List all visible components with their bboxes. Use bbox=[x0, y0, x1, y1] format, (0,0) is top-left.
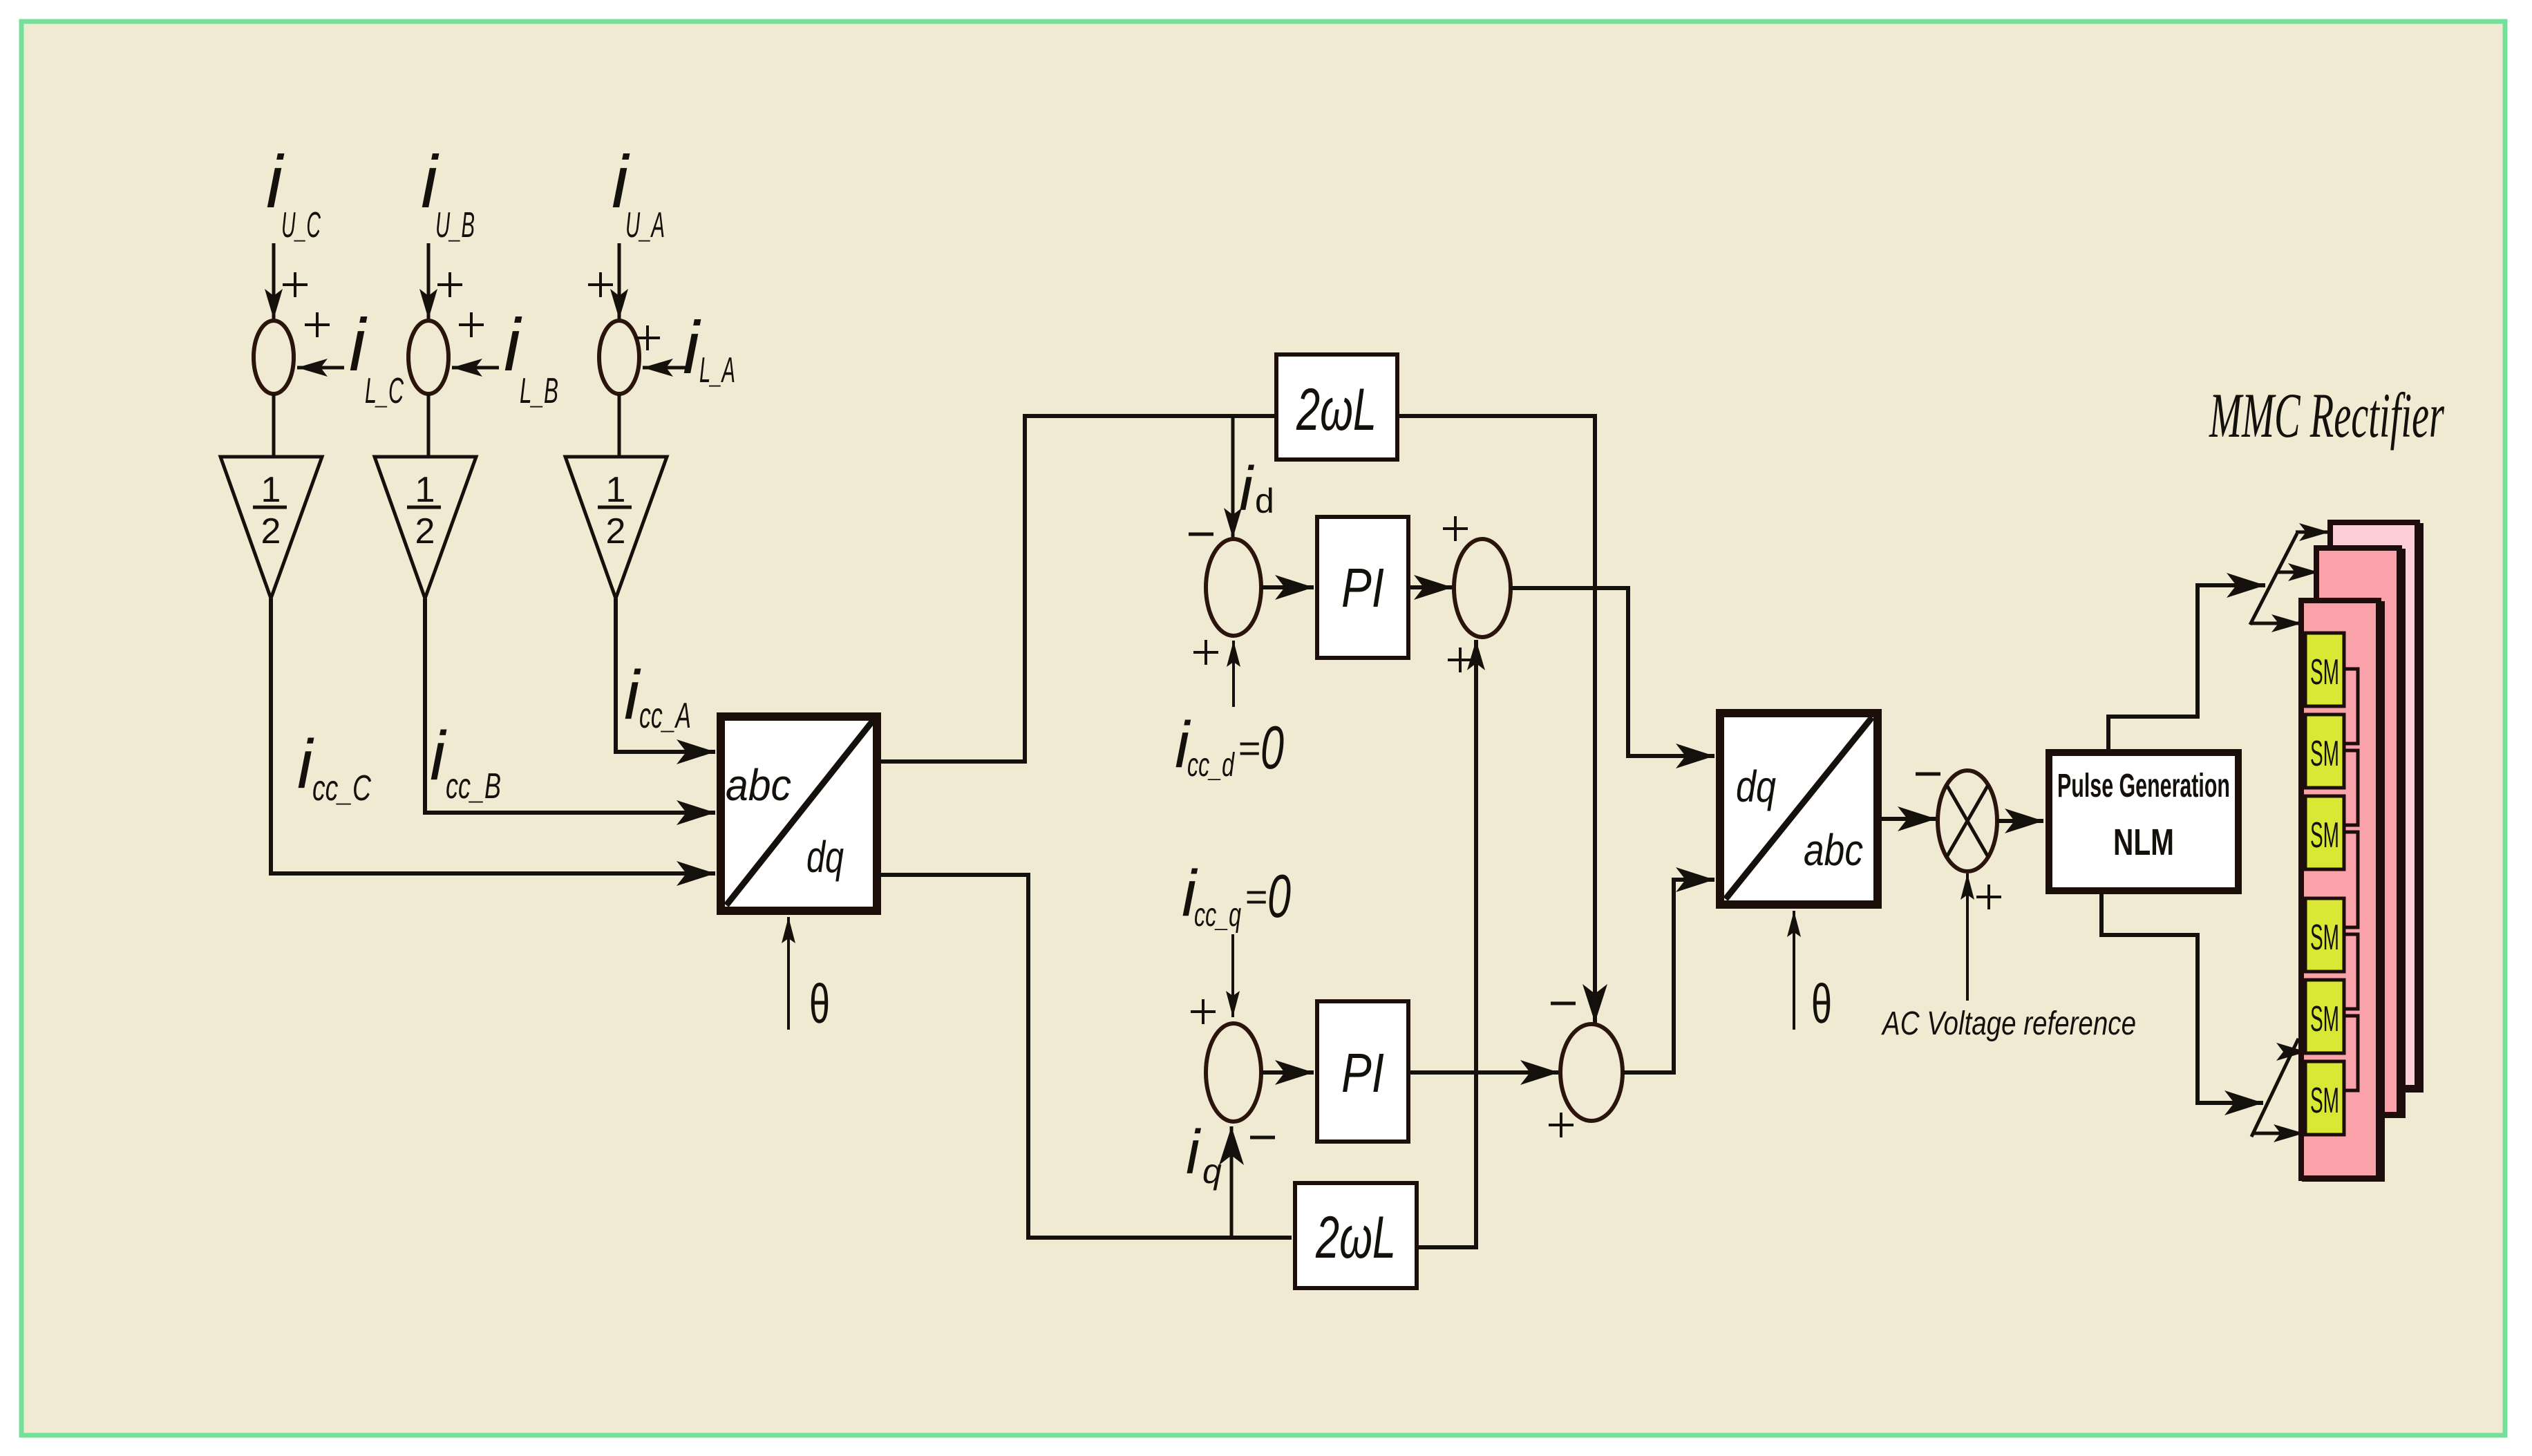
svg-text:2ωL: 2ωL bbox=[1296, 377, 1377, 443]
svg-text:=: = bbox=[1238, 726, 1260, 770]
svg-text:=: = bbox=[1245, 875, 1267, 918]
svg-text:2: 2 bbox=[261, 511, 281, 551]
svg-text:U_B: U_B bbox=[435, 205, 475, 245]
svg-text:SM: SM bbox=[2310, 1081, 2339, 1121]
svg-text:cc_C: cc_C bbox=[312, 768, 371, 809]
svg-text:SM: SM bbox=[2310, 918, 2339, 958]
svg-text:θ: θ bbox=[1811, 973, 1832, 1034]
svg-text:MMC Rectifier: MMC Rectifier bbox=[2209, 380, 2445, 451]
svg-text:i: i bbox=[1239, 455, 1255, 524]
svg-text:U_C: U_C bbox=[281, 205, 321, 245]
svg-text:θ: θ bbox=[809, 973, 830, 1034]
svg-text:0: 0 bbox=[1260, 713, 1284, 782]
svg-text:L_B: L_B bbox=[520, 371, 558, 411]
svg-text:i: i bbox=[430, 717, 447, 795]
svg-text:i: i bbox=[683, 305, 701, 389]
svg-text:abc: abc bbox=[1804, 825, 1863, 875]
svg-text:i: i bbox=[1186, 1118, 1202, 1187]
svg-text:0: 0 bbox=[1267, 862, 1291, 930]
svg-text:cc_B: cc_B bbox=[446, 766, 501, 806]
svg-text:L_A: L_A bbox=[699, 350, 735, 390]
svg-text:AC Voltage reference: AC Voltage reference bbox=[1881, 1005, 2136, 1042]
svg-text:cc_A: cc_A bbox=[639, 696, 691, 736]
svg-text:NLM: NLM bbox=[2113, 822, 2174, 863]
svg-text:PI: PI bbox=[1341, 1042, 1384, 1104]
svg-text:dq: dq bbox=[806, 832, 844, 882]
svg-text:1: 1 bbox=[415, 470, 435, 510]
svg-text:SM: SM bbox=[2310, 999, 2339, 1039]
svg-text:SM: SM bbox=[2310, 815, 2339, 855]
svg-text:q: q bbox=[1202, 1152, 1222, 1191]
svg-text:L_C: L_C bbox=[365, 371, 404, 411]
svg-text:dq: dq bbox=[1736, 762, 1776, 811]
svg-text:Pulse Generation: Pulse Generation bbox=[2057, 768, 2230, 804]
svg-text:abc: abc bbox=[726, 760, 791, 810]
svg-text:SM: SM bbox=[2310, 652, 2339, 692]
svg-text:SM: SM bbox=[2310, 734, 2339, 774]
svg-text:d: d bbox=[1255, 482, 1274, 520]
svg-text:cc_q: cc_q bbox=[1194, 897, 1241, 934]
svg-text:2: 2 bbox=[606, 511, 626, 551]
svg-text:2ωL: 2ωL bbox=[1315, 1204, 1396, 1271]
svg-text:1: 1 bbox=[606, 470, 626, 510]
svg-text:U_A: U_A bbox=[625, 205, 665, 245]
svg-text:PI: PI bbox=[1341, 557, 1384, 618]
svg-text:1: 1 bbox=[261, 470, 281, 510]
svg-text:2: 2 bbox=[415, 511, 435, 551]
svg-text:cc_d: cc_d bbox=[1187, 747, 1235, 784]
